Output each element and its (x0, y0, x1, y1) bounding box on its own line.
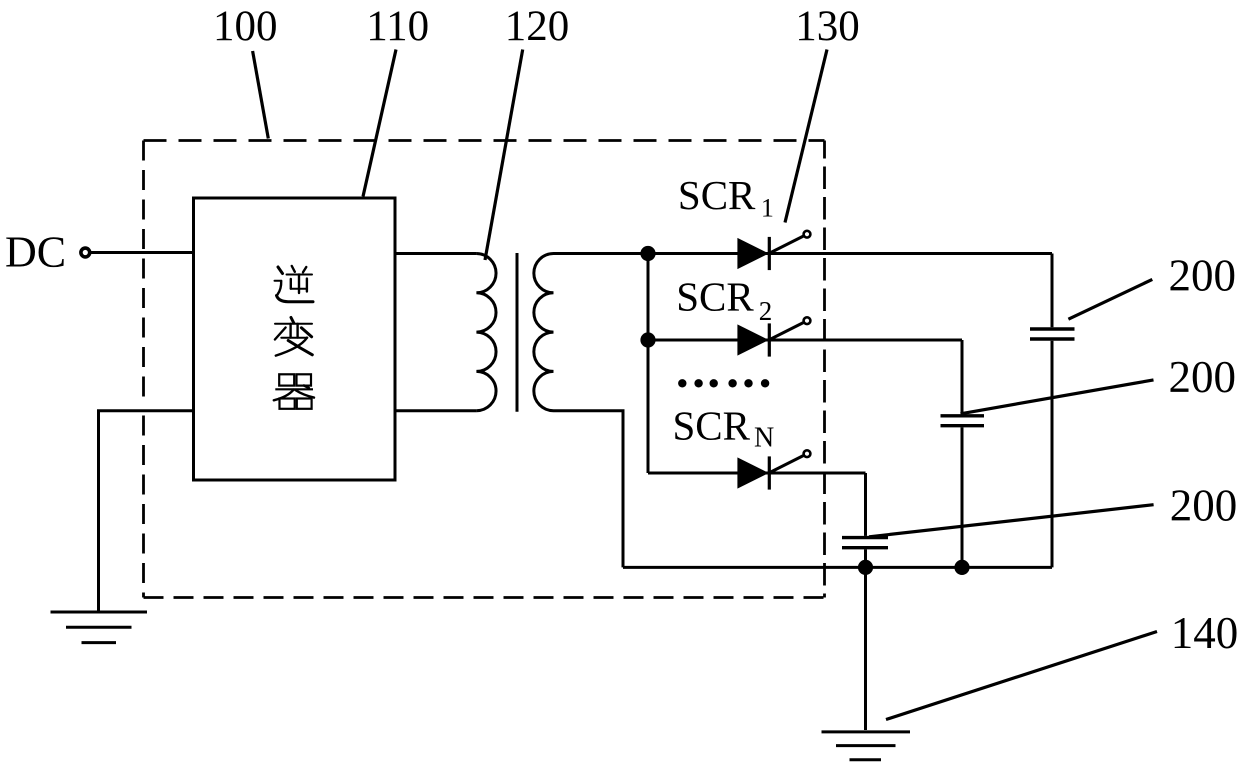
node dot bus-C3 (858, 560, 873, 575)
wire DC terminal to inverter (91, 251, 194, 254)
node dot row1 (640, 246, 655, 261)
leader line 140 (886, 632, 1157, 720)
node dot bus-C2 (954, 560, 969, 575)
wire bus to ground 140 (864, 567, 867, 730)
wire transformer primary bottom to inverter (395, 409, 476, 412)
leader line for 110 (363, 50, 396, 197)
node bus vertical (left of SCR column) (647, 254, 650, 474)
transformer T1 secondary winding (534, 254, 554, 411)
wire C2 to bottom bus (961, 427, 964, 567)
capacitor C2 (200) (941, 416, 985, 426)
DC input terminal (81, 248, 90, 257)
inverter label 器 (274, 374, 314, 409)
wire inverter to transformer primary (top) (395, 252, 476, 255)
ground 140 (bottom) (822, 732, 911, 760)
wire C3 to bottom bus (864, 549, 867, 567)
leader line 200-C3 (869, 505, 1154, 537)
svg-text:120: 120 (505, 3, 570, 50)
leader line 200-C2 (961, 380, 1154, 414)
leader line for 120 (485, 50, 523, 261)
wire inverter bottom-left to ground (99, 411, 194, 611)
svg-text:SCR2: SCR2 (676, 274, 772, 327)
wire SCRN row (648, 472, 866, 475)
svg-text:140: 140 (1171, 608, 1239, 658)
leader line for 100 (253, 51, 269, 139)
svg-text:100: 100 (213, 3, 278, 50)
thyristor SCR1 (737, 231, 810, 270)
wire SCR1 output down to C1 (1051, 254, 1054, 328)
transformer core (516, 253, 519, 412)
svg-text:200: 200 (1168, 352, 1236, 402)
dashed enclosure box 100 (144, 141, 825, 598)
thyristor SCR2 (737, 317, 810, 356)
svg-text:110: 110 (366, 3, 429, 50)
wire SCRN output down to C3 (864, 473, 867, 536)
leader line for 130 (785, 50, 827, 223)
node dot row2 (640, 332, 655, 347)
wire SCR2 row (648, 339, 962, 342)
ellipsis dots between SCR rows (678, 379, 769, 387)
svg-text:DC: DC (5, 228, 66, 277)
wire SCR2 output down to C2 (961, 340, 964, 414)
inverter U1 box 110 (194, 198, 396, 480)
bottom bus wire (623, 566, 1052, 569)
svg-text:SCRN: SCRN (673, 402, 775, 453)
thyristor SCRN (737, 450, 810, 489)
inverter label 逆 (275, 266, 314, 302)
svg-text:130: 130 (795, 3, 860, 50)
leader line 200-C1 (1068, 279, 1152, 319)
wire secondary bottom (554, 411, 624, 568)
wire secondary top / SCR1 row (554, 252, 1053, 255)
svg-text:200: 200 (1170, 481, 1238, 531)
capacitor C1 (200) (1030, 329, 1075, 339)
svg-text:SCR1: SCR1 (678, 172, 774, 223)
inverter label 变 (275, 318, 312, 356)
transformer T1 primary winding 120 (476, 254, 496, 411)
capacitor C3 (200) (842, 538, 888, 548)
ground (left) (51, 612, 148, 643)
wire C1 to bottom bus (1051, 341, 1054, 568)
svg-text:200: 200 (1168, 251, 1236, 301)
